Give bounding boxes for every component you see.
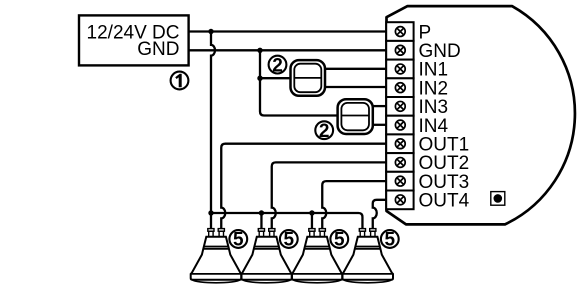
junction dot on GND line <box>257 48 262 53</box>
terminal GND <box>386 41 461 62</box>
wire: lamp 3 + stub <box>311 213 313 229</box>
callout 1 (power supply) <box>171 72 189 90</box>
svg-text:OUT4: OUT4 <box>419 191 470 212</box>
lamp L1 (GU10 spotlight) <box>191 229 242 283</box>
callout 5 (lamp L3) <box>330 230 348 251</box>
button S2 (momentary switch) <box>338 99 373 134</box>
terminal OUT3 <box>386 172 469 193</box>
wire: OUT2 to lamp 2 (hops lamp bus) <box>272 162 387 228</box>
power supply PS1 box <box>79 15 189 65</box>
junction dot lamp bus at lamp 1 <box>208 210 213 215</box>
wire: lamp 2 + stub <box>260 213 262 229</box>
wire: lamp + bus <box>211 213 362 229</box>
wire: OUT4 to lamp 4 (hops lamp bus) <box>373 200 387 229</box>
terminal OUT4 <box>386 191 469 212</box>
junction dot lamp bus at lamp 3 <box>309 210 314 215</box>
terminal OUT1 <box>386 134 469 155</box>
terminal IN1 <box>386 60 448 81</box>
wire: GND line from power box to terminal GND <box>189 49 387 51</box>
wire: OUT1 to lamp 1 (hops lamp bus) <box>221 144 386 229</box>
wire: OUT3 to lamp 3 (hops lamp bus) <box>322 181 386 229</box>
svg-text:2: 2 <box>319 121 330 142</box>
terminal P (screw terminal + label) <box>386 22 431 43</box>
terminal IN2 <box>386 78 448 99</box>
svg-text:5: 5 <box>385 230 396 251</box>
wire: button S1 to IN2 <box>325 86 386 88</box>
wire: button S2 to IN3 <box>373 105 387 107</box>
lamp L4 (GU10 spotlight) <box>342 229 393 283</box>
svg-text:5: 5 <box>284 230 295 251</box>
callout 5 (lamp L4) <box>381 230 399 251</box>
button S1 (momentary switch) <box>291 60 326 96</box>
terminal IN3 <box>386 97 448 118</box>
svg-text:5: 5 <box>233 230 244 251</box>
junction dot at button S1 branch <box>257 76 262 81</box>
wire: GND branch down to buttons <box>260 50 338 115</box>
lamp L3 (GU10 spotlight) <box>292 229 343 283</box>
lamp L2 (GU10 spotlight) <box>241 229 292 283</box>
svg-text:5: 5 <box>334 230 345 251</box>
callout 2 (button S1) <box>269 55 287 76</box>
reset button with LED on device <box>491 192 505 206</box>
junction dot lamp bus at lamp 2 <box>259 210 264 215</box>
callout 2 (button S2) <box>315 121 333 142</box>
callout 5 (lamp L2) <box>280 230 298 251</box>
wire: +V feed drop from P line down to lamp 1 + pin (hops GND line) <box>211 32 215 229</box>
wire: branch to button S1 <box>260 77 291 79</box>
terminal OUT2 <box>386 153 469 174</box>
svg-text:2: 2 <box>272 55 283 76</box>
device U1 controller body outline <box>387 6 575 224</box>
wire: button S2 to IN4 <box>373 124 387 126</box>
callout 5 (lamp L1) <box>229 230 247 251</box>
wire: button S1 to IN1 <box>325 68 386 70</box>
junction dot on P line <box>208 29 213 34</box>
svg-text:GND: GND <box>137 39 179 60</box>
terminal IN4 <box>386 116 448 137</box>
wire: P supply line from power box to terminal P <box>189 30 387 32</box>
